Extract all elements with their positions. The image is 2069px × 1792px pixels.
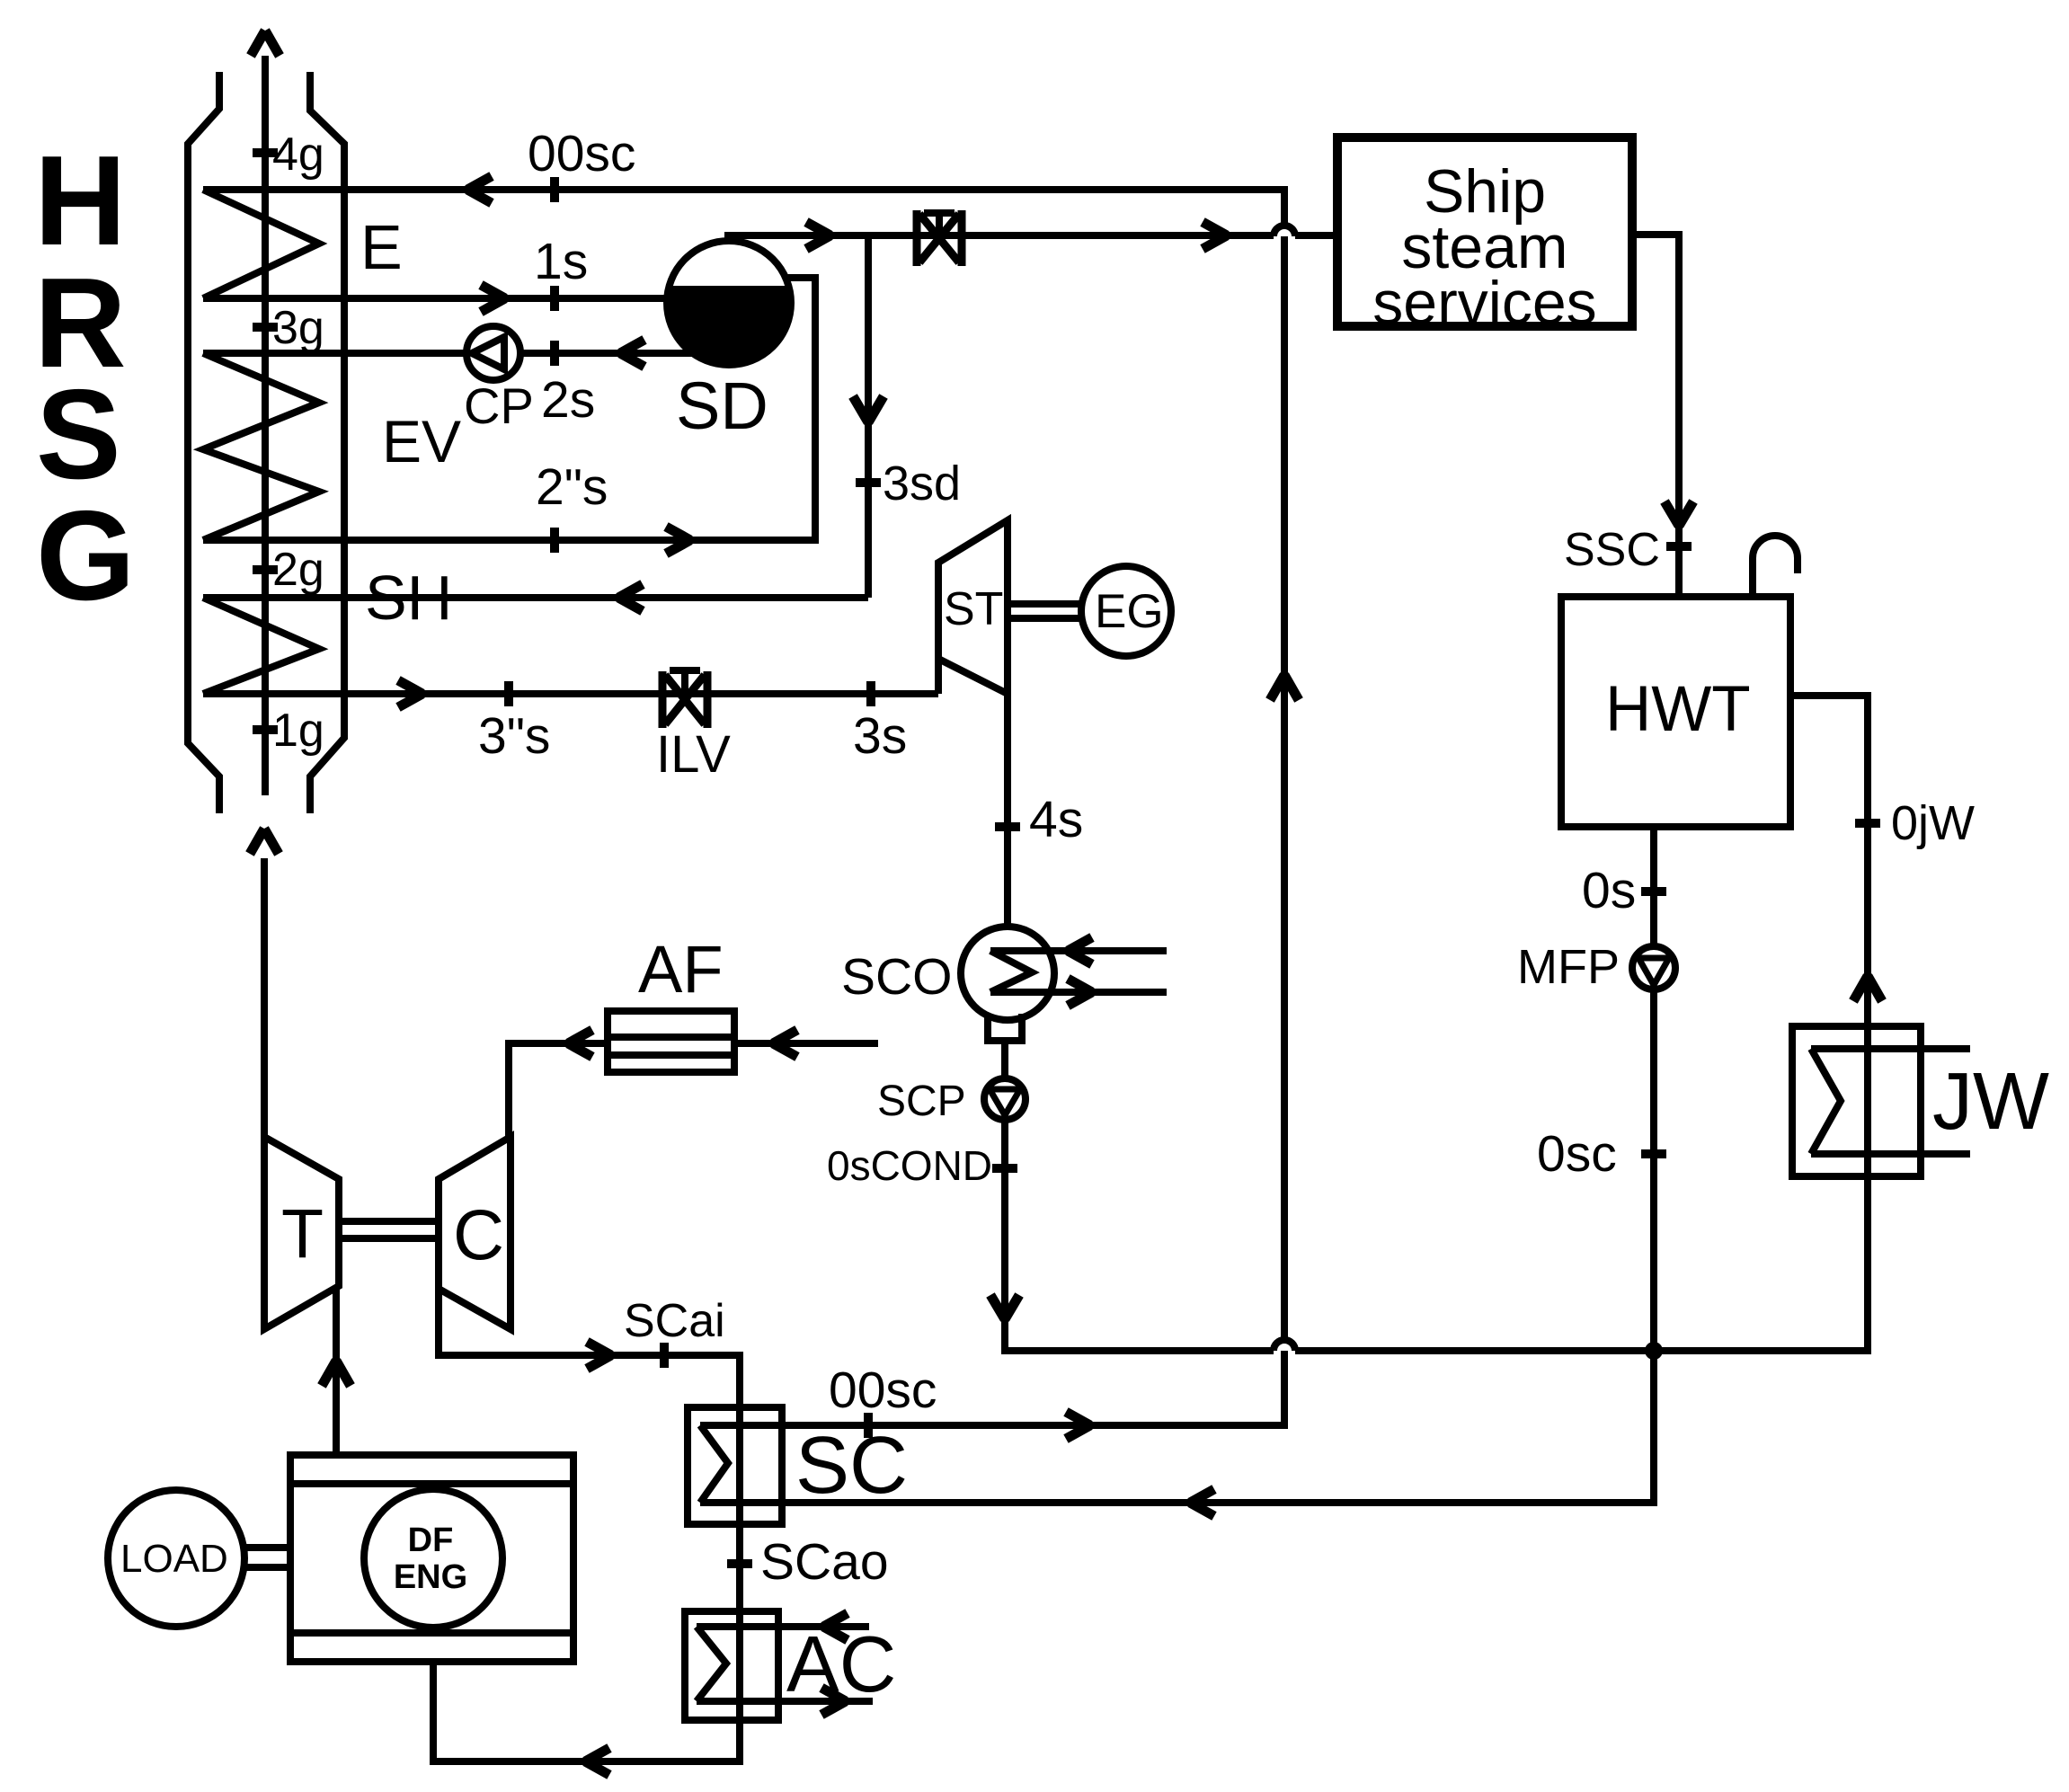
hot well tank HWT <box>1561 597 1790 827</box>
arrow: into AF <box>773 1030 797 1057</box>
arrow: SC outlet right <box>1066 1412 1090 1439</box>
jacket water heater JW box <box>1792 1026 1921 1176</box>
svg-text:EG: EG <box>1095 585 1164 638</box>
node 0sCOND tick <box>992 1164 1017 1173</box>
superheater SH coil <box>203 598 319 694</box>
node 3sd tick <box>856 478 881 487</box>
svg-text:DF: DF <box>408 1521 454 1559</box>
svg-text:3s: 3s <box>853 707 907 765</box>
node 0jW tick <box>1855 819 1880 828</box>
generator LOAD <box>108 1490 244 1627</box>
svg-text:00sc: 00sc <box>528 125 635 182</box>
wire: SH top line from 3sd <box>203 594 868 601</box>
wire: 2"s EV outlet to drum <box>203 278 815 540</box>
node 1s tick <box>550 286 559 311</box>
node 3s tick <box>866 681 875 706</box>
air cooler AC box <box>685 1611 778 1720</box>
arrow: gas up into duct <box>250 829 279 854</box>
arrow: from AF left <box>568 1030 592 1057</box>
node SCai tick <box>660 1343 669 1368</box>
arrow: condensate down <box>990 1295 1019 1319</box>
svg-text:AF: AF <box>638 932 724 1007</box>
arrow: air into engine left <box>585 1748 609 1775</box>
wire: SCai compressed air C to SC to AC to engine <box>433 1289 740 1761</box>
generator EG <box>1081 566 1171 656</box>
svg-text:MFP: MFP <box>1517 940 1620 994</box>
svg-text:2g: 2g <box>272 544 324 596</box>
svg-text:2"s: 2"s <box>536 458 608 516</box>
arrow: 3sd down <box>853 396 884 422</box>
svg-text:HWT: HWT <box>1605 674 1751 745</box>
svg-text:ILV: ILV <box>656 725 731 784</box>
node 2"s tick <box>550 528 559 553</box>
wire: 4s turbine exhaust to condenser <box>1004 694 1011 927</box>
SC coil <box>700 1425 728 1503</box>
pump CP <box>466 326 520 380</box>
arrow: steam right 1 <box>806 222 830 249</box>
svg-text:CP: CP <box>464 377 534 434</box>
valve ILV <box>662 671 707 728</box>
svg-text:SC: SC <box>795 1421 908 1511</box>
arrow: gas up at stack top <box>251 31 280 56</box>
svg-text:00sc: 00sc <box>829 1362 937 1419</box>
wire: 3"s / 3s superheated steam to ST <box>203 690 938 697</box>
arrow: cooling water in <box>1068 937 1092 964</box>
shaft engine-LOAD <box>244 1548 290 1567</box>
svg-text:SCO: SCO <box>841 948 953 1006</box>
pump SCP <box>984 1078 1026 1120</box>
economizer E coil <box>203 190 319 298</box>
wire: 3sd drum steam to superheater <box>865 235 872 598</box>
wire: T exhaust up to HRSG <box>261 858 268 1137</box>
steam air heater SC box <box>688 1407 782 1524</box>
arrow: 1s right <box>481 285 505 312</box>
wire: 2s drum to CP to EV <box>203 350 693 357</box>
engine DF ENG box <box>290 1455 573 1662</box>
svg-text:T: T <box>281 1195 324 1273</box>
svg-text:SSC: SSC <box>1564 524 1660 576</box>
svg-text:EV: EV <box>382 408 461 475</box>
shaft T-C <box>339 1221 439 1238</box>
svg-text:3g: 3g <box>272 302 324 354</box>
node 4g tick <box>253 148 278 157</box>
shaft ST-EG <box>1008 604 1081 618</box>
pump MFP <box>1632 946 1675 989</box>
valve on steam line <box>917 210 962 266</box>
node 0sc tick <box>1641 1149 1666 1158</box>
condenser hotwell <box>988 1014 1022 1041</box>
arrow: AC cooling out <box>821 1688 846 1715</box>
arrow: exhaust up <box>322 1361 351 1386</box>
svg-text:1s: 1s <box>534 233 588 290</box>
node 3g tick <box>253 323 278 332</box>
wire: HWT to 0jW riser <box>1790 696 1868 1351</box>
HWT vent pipe <box>1753 536 1798 597</box>
svg-text:4s: 4s <box>1029 791 1083 848</box>
arrow: 0jW up <box>1853 976 1882 1001</box>
node 2g tick <box>253 565 278 574</box>
node 00sc tick (top) <box>550 177 559 202</box>
HRSG duct left wall <box>188 72 219 813</box>
svg-text:SCai: SCai <box>624 1295 725 1347</box>
wire: engine exhaust to T <box>333 1288 340 1455</box>
arrow: SCai right <box>587 1342 611 1369</box>
arrow: into E <box>467 176 492 203</box>
arrow: into SH left <box>618 584 643 611</box>
svg-text:E: E <box>360 212 403 282</box>
node 4s tick <box>995 822 1020 831</box>
arrow: AC cooling in <box>823 1613 848 1640</box>
hop: condensate line over riser <box>1274 1340 1295 1351</box>
svg-text:SCao: SCao <box>760 1533 889 1591</box>
svg-text:SD: SD <box>676 368 768 443</box>
wire: HWT bottom 0s to MFP to junction <box>700 827 1654 1503</box>
svg-text:0sCOND: 0sCOND <box>827 1142 992 1189</box>
wire: 0sCOND condensate to junction <box>1005 1120 1868 1351</box>
svg-text:AC: AC <box>786 1619 896 1708</box>
node 0s tick <box>1641 887 1666 896</box>
steam turbine ST <box>938 520 1008 694</box>
svg-text:JW: JW <box>1932 1057 2049 1147</box>
air filter AF <box>608 1011 734 1072</box>
arrow: cooling water out <box>1068 979 1092 1006</box>
condenser SCO <box>961 927 1054 1020</box>
turbocharger compressor C <box>439 1137 511 1329</box>
wire: SSC ship services to HWT <box>1632 235 1679 597</box>
AC coil <box>697 1627 873 1701</box>
svg-text:SCP: SCP <box>877 1078 966 1125</box>
wire: 1s E to drum SD <box>203 295 669 302</box>
arrow: SSC down <box>1665 501 1693 526</box>
node 1g tick <box>253 725 278 734</box>
wire: saturated steam drum to ship services <box>724 232 1337 239</box>
arrow: riser up <box>1270 675 1299 700</box>
arrow: steam right 2 <box>1203 222 1227 249</box>
arrow: 3"s right <box>398 680 422 707</box>
arrow: 0sc into SC left <box>1190 1489 1214 1516</box>
svg-text:0s: 0s <box>1582 862 1636 919</box>
svg-text:G: G <box>36 484 135 627</box>
svg-text:ST: ST <box>944 583 1003 635</box>
svg-text:services: services <box>1372 269 1596 337</box>
turbocharger turbine T <box>264 1137 339 1329</box>
svg-text:2s: 2s <box>541 371 595 429</box>
node SSC tick <box>1666 542 1692 551</box>
svg-text:ENG: ENG <box>394 1558 467 1596</box>
hop: steam line over riser <box>1274 226 1295 236</box>
HRSG duct right wall <box>310 72 344 813</box>
wire: air intake to AF <box>734 1040 878 1047</box>
wire: hotwell to SCP <box>1001 1041 1008 1078</box>
svg-text:0sc: 0sc <box>1537 1125 1617 1183</box>
wire: AF to compressor C <box>509 1043 608 1137</box>
arrow: 2s left <box>620 340 644 367</box>
svg-text:1g: 1g <box>272 705 324 757</box>
wire: exhaust gas line through HRSG <box>262 56 269 795</box>
svg-text:3"s: 3"s <box>478 707 550 765</box>
steam drum SD <box>667 241 791 365</box>
node 00sc tick (bottom) <box>864 1413 873 1438</box>
ship steam services box <box>1337 138 1632 326</box>
node 2s tick <box>550 341 559 366</box>
svg-text:4g: 4g <box>272 129 324 181</box>
svg-text:0jW: 0jW <box>1891 796 1975 850</box>
evaporator EV coil <box>203 353 319 540</box>
svg-text:LOAD: LOAD <box>120 1537 228 1581</box>
arrow: 2"s right <box>666 527 690 554</box>
wire: 00sc feedwater return SC to E (top line + riser) <box>203 190 1284 1425</box>
node SCao tick <box>727 1559 752 1568</box>
JW coil <box>1811 1049 1970 1154</box>
svg-text:C: C <box>453 1194 504 1274</box>
node 3"s tick <box>504 681 513 706</box>
svg-text:3sd: 3sd <box>883 457 961 510</box>
junction condensate/feed <box>1645 1342 1663 1360</box>
